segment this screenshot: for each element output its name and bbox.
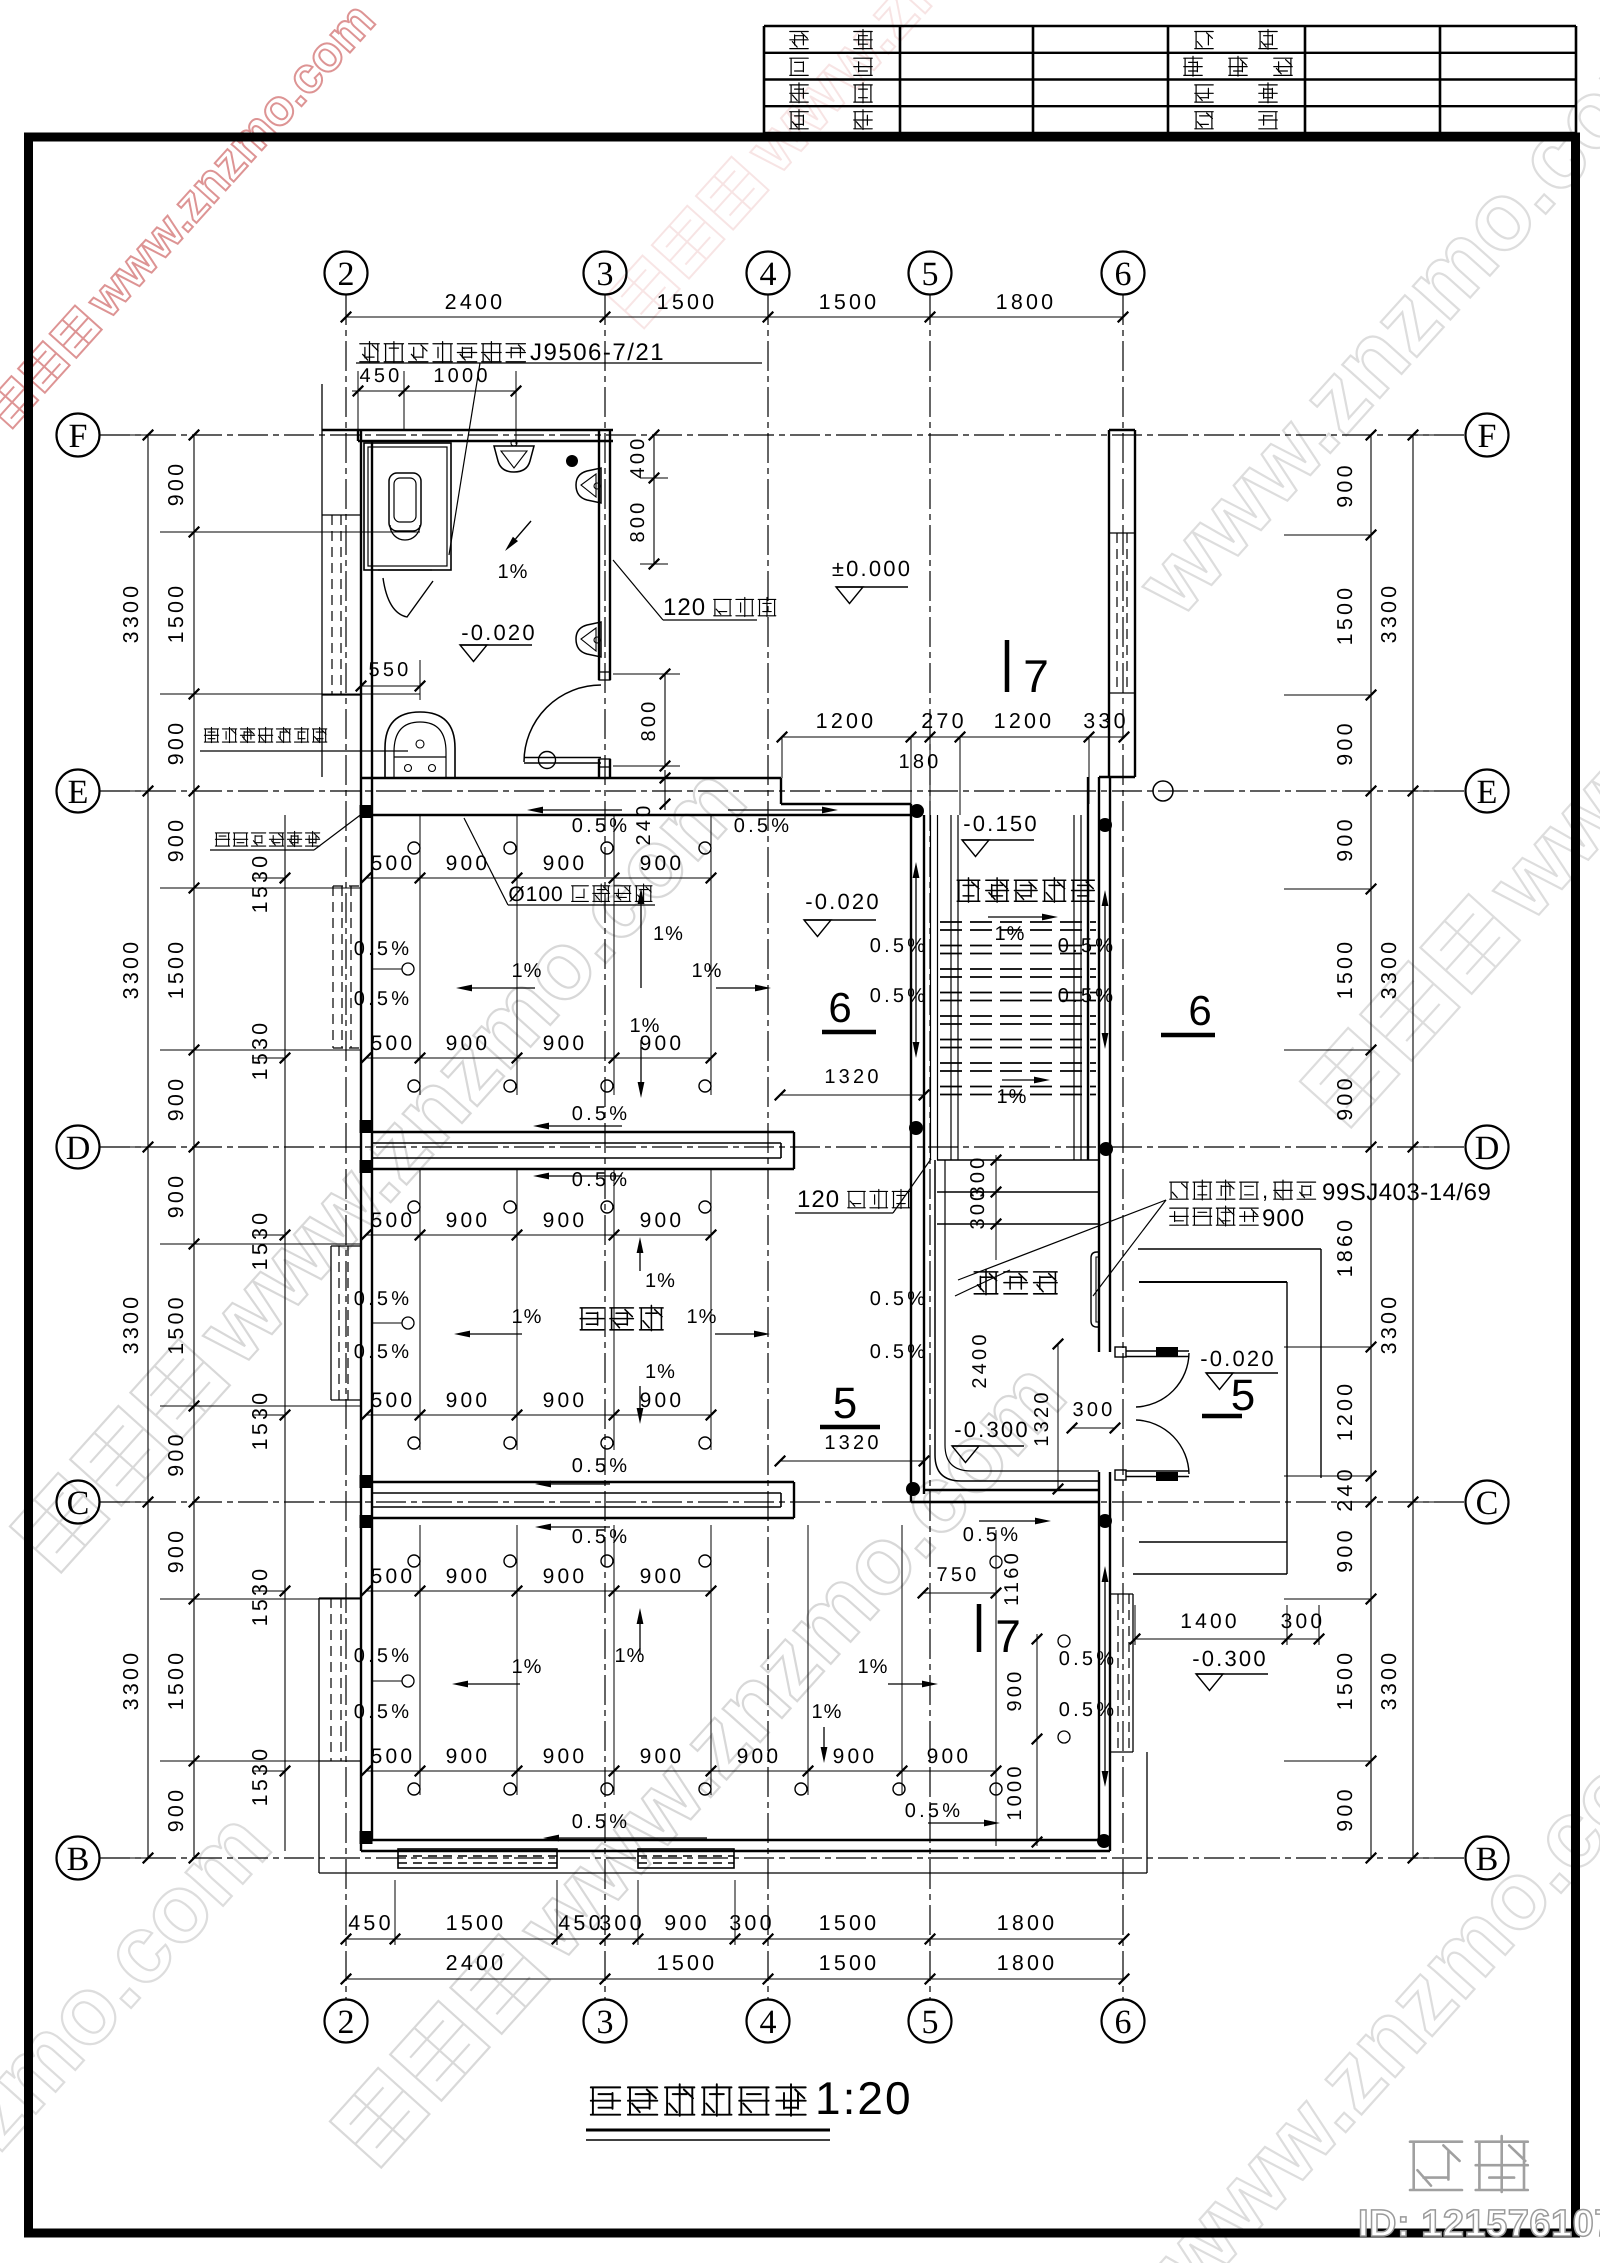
annotation floor drain	[215, 831, 319, 846]
svg-text:1500: 1500	[164, 1294, 188, 1355]
svg-text:900: 900	[446, 1032, 491, 1055]
dim 400/800 right of toilet	[653, 435, 655, 565]
svg-text:4: 4	[760, 256, 777, 293]
dim row 1200/270/1200/330	[782, 736, 1124, 738]
watermark band 2 right	[1286, 301, 1600, 1139]
svg-text:B: B	[1476, 1841, 1499, 1878]
svg-text:500: 500	[371, 852, 416, 875]
svg-text:1530: 1530	[248, 1566, 272, 1627]
corridor side gutters	[950, 815, 952, 1160]
svg-text:900: 900	[164, 1173, 188, 1218]
svg-text:1500: 1500	[819, 1911, 880, 1935]
svg-text:-0.020: -0.020	[1200, 1346, 1276, 1371]
wall toilet top	[322, 429, 613, 431]
svg-text:0.5%: 0.5%	[1058, 985, 1116, 1007]
svg-text:900: 900	[164, 720, 188, 765]
svg-text:900: 900	[446, 852, 491, 875]
corridor wall arrow down	[1104, 960, 1106, 1033]
svg-text:6: 6	[1115, 2004, 1132, 2041]
axis bubbles right	[1466, 414, 1509, 457]
svg-text:450: 450	[360, 365, 403, 387]
svg-text:1%: 1%	[995, 923, 1026, 945]
row1 drains top	[408, 842, 420, 854]
svg-text:180: 180	[899, 751, 942, 773]
svg-text:2: 2	[338, 256, 355, 293]
top sub-dimension 450/1000	[352, 390, 516, 392]
dim 240 wall E	[664, 770, 666, 810]
svg-text:270: 270	[921, 709, 966, 733]
watermark band 1	[0, 746, 766, 1584]
floor drain dot toilet	[566, 455, 578, 467]
svg-text:1%: 1%	[512, 960, 543, 982]
svg-text:900: 900	[640, 1745, 685, 1768]
svg-text:900: 900	[640, 1565, 685, 1588]
partition door swing	[383, 578, 433, 617]
svg-text:0.5%: 0.5%	[354, 1701, 412, 1723]
svg-text:120: 120	[663, 594, 706, 621]
svg-text:0.5%: 0.5%	[572, 1526, 630, 1548]
porch dim 240 bar	[1287, 1475, 1371, 1477]
svg-text:1500: 1500	[657, 1951, 718, 1975]
svg-text:-0.300: -0.300	[954, 1417, 1030, 1442]
bottom dim chain row2	[346, 1978, 1124, 1980]
svg-text:400: 400	[627, 436, 649, 479]
toilet door knob circle	[539, 752, 556, 769]
window bump left D-C	[330, 1246, 332, 1400]
svg-text:1%: 1%	[498, 561, 529, 583]
squat platform notch	[378, 569, 432, 571]
svg-text:6: 6	[828, 984, 851, 1031]
wall right axis6 F-E outer	[1108, 430, 1110, 777]
svg-text:900: 900	[1333, 1527, 1357, 1572]
svg-text:3300: 3300	[1377, 1650, 1401, 1711]
svg-text:1%: 1%	[812, 1701, 843, 1723]
row1 slope 1% mid	[472, 987, 535, 989]
svg-text:1500: 1500	[1333, 1650, 1357, 1711]
svg-text:ID: 1215761071: ID: 1215761071	[1358, 2203, 1600, 2245]
svg-text:900: 900	[543, 852, 588, 875]
svg-text:5: 5	[922, 256, 939, 293]
svg-text:1530: 1530	[248, 1020, 272, 1081]
svg-text:1320: 1320	[824, 1432, 881, 1454]
window bump left E-D dashed	[332, 886, 334, 1048]
svg-text:7: 7	[1023, 650, 1049, 702]
porch inner step	[1139, 1281, 1287, 1283]
top dimension line 2400/1500/1500/1800	[346, 316, 1123, 318]
svg-text:E: E	[68, 774, 89, 811]
svg-text:1000: 1000	[1004, 1763, 1026, 1820]
left dim chain 3300	[147, 435, 149, 1858]
row3 right wall arrow	[1104, 1582, 1106, 1700]
svg-text:900: 900	[1333, 720, 1357, 765]
wall corner markers left	[360, 805, 373, 818]
watermark band 1b upper right	[1116, 0, 1600, 635]
svg-text:1500: 1500	[657, 290, 718, 314]
corridor grating hatch	[940, 921, 1096, 923]
pool bottom wall at C	[924, 1489, 1099, 1491]
svg-text:1500: 1500	[164, 939, 188, 1000]
svg-text:1500: 1500	[1333, 585, 1357, 646]
double door leaf top	[1126, 1350, 1189, 1352]
svg-text:900: 900	[1333, 1075, 1357, 1120]
svg-text:3300: 3300	[1377, 1294, 1401, 1355]
svg-text:550: 550	[369, 659, 412, 681]
axis grid horizontal lines F-B	[100, 434, 1465, 436]
window axis6 wall dashes	[1116, 533, 1118, 693]
svg-text:3300: 3300	[1377, 583, 1401, 644]
svg-text:C: C	[1476, 1485, 1499, 1522]
axis bubbles top	[325, 252, 368, 295]
svg-text:J9506-7/21: J9506-7/21	[530, 339, 665, 366]
toilet door leaf	[524, 757, 601, 759]
svg-text:1%: 1%	[687, 1306, 718, 1328]
bottom windows in B wall	[398, 1849, 557, 1868]
row3 dim bottom full	[366, 1770, 996, 1772]
svg-text:1000: 1000	[433, 365, 490, 387]
wall jog at E right	[1099, 776, 1135, 778]
svg-text:0.5%: 0.5%	[354, 988, 412, 1010]
right dim chain inner	[1370, 435, 1372, 1858]
window bump left C-B	[318, 1598, 320, 1761]
svg-text:0.5%: 0.5%	[572, 1455, 630, 1477]
bottom dim chain row1	[346, 1938, 1124, 1940]
svg-text:900: 900	[164, 1431, 188, 1476]
svg-text:900: 900	[737, 1745, 782, 1768]
svg-text:240: 240	[1333, 1466, 1357, 1511]
svg-text:900: 900	[640, 852, 685, 875]
svg-text:0.5%: 0.5%	[572, 1811, 630, 1833]
svg-text:1%: 1%	[615, 1645, 646, 1667]
svg-text:5: 5	[1231, 1371, 1255, 1420]
corridor left lining	[930, 815, 932, 1160]
row2 drains top	[408, 1201, 420, 1213]
svg-text:1800: 1800	[997, 1951, 1058, 1975]
svg-text:0.5%: 0.5%	[1059, 1699, 1117, 1721]
svg-text:1%: 1%	[512, 1656, 543, 1678]
slope arrow toilet 1%	[516, 521, 532, 539]
dim 1400/300 bottom right	[1135, 1638, 1319, 1640]
room label male shower	[580, 1305, 663, 1330]
svg-text:900: 900	[927, 1745, 972, 1768]
urinal right lower	[576, 622, 601, 657]
porch steps right	[1138, 1248, 1321, 1250]
svg-text:F: F	[1478, 418, 1497, 455]
annotation toilet wood partition leader	[360, 342, 526, 363]
svg-text:-0.020: -0.020	[461, 620, 537, 645]
section mark 7 top	[1005, 640, 1010, 692]
svg-text:0.5%: 0.5%	[905, 1800, 963, 1822]
axis bubbles bottom	[325, 2000, 368, 2043]
svg-text:1%: 1%	[858, 1656, 889, 1678]
svg-text:240: 240	[633, 803, 655, 846]
E axis node circle	[1153, 781, 1173, 801]
svg-text:800: 800	[627, 500, 649, 543]
svg-text:500: 500	[371, 1565, 416, 1588]
svg-text:900: 900	[446, 1389, 491, 1412]
watermark band 4 bottom right	[951, 1676, 1600, 2263]
double door arc bottom	[1136, 1420, 1189, 1474]
svg-text:0.5%: 0.5%	[572, 1169, 630, 1191]
squat toilet platform	[364, 443, 451, 570]
dim 1320 upper	[780, 1094, 924, 1096]
svg-text:900: 900	[1333, 816, 1357, 861]
svg-text:D: D	[66, 1130, 91, 1167]
svg-text:300: 300	[1073, 1399, 1116, 1421]
svg-text:750: 750	[937, 1564, 980, 1586]
svg-text:900: 900	[446, 1565, 491, 1588]
svg-text:1500: 1500	[164, 583, 188, 644]
svg-text:F: F	[69, 418, 88, 455]
wall toilet bottom / E band	[361, 777, 781, 779]
svg-text:1500: 1500	[446, 1911, 507, 1935]
svg-text:7: 7	[995, 1610, 1021, 1662]
washbasin	[385, 712, 455, 778]
svg-text:0.5%: 0.5%	[870, 985, 928, 1007]
svg-text:1%: 1%	[630, 1015, 661, 1037]
svg-text:1:20: 1:20	[815, 2072, 913, 2124]
znzmo logo	[1410, 2136, 1528, 2192]
svg-text:1320: 1320	[824, 1066, 881, 1088]
svg-text:3300: 3300	[119, 939, 143, 1000]
dim 550 toilet	[361, 685, 420, 687]
svg-text:450: 450	[558, 1911, 603, 1935]
svg-text:1800: 1800	[996, 290, 1057, 314]
handrail in pool	[1091, 1252, 1099, 1327]
svg-text:3: 3	[597, 256, 614, 293]
svg-text:1500: 1500	[164, 1650, 188, 1711]
svg-text:1320: 1320	[1031, 1389, 1053, 1446]
annotation washbasin	[204, 727, 326, 742]
svg-text:900: 900	[543, 1389, 588, 1412]
svg-text:1530: 1530	[248, 853, 272, 914]
svg-text:900: 900	[543, 1032, 588, 1055]
row3 drains bottom	[408, 1783, 420, 1795]
corridor label	[957, 878, 1094, 902]
svg-text:1530: 1530	[248, 1210, 272, 1271]
svg-text:0.5%: 0.5%	[870, 935, 928, 957]
svg-text:0.5%: 0.5%	[1059, 1648, 1117, 1670]
wall left outer face	[360, 430, 362, 1851]
svg-text:120: 120	[797, 1186, 840, 1213]
toilet door swing arc	[524, 685, 601, 762]
wall bottom B	[361, 1839, 1110, 1841]
row2 dim top	[366, 1234, 711, 1236]
svg-text:0.5%: 0.5%	[734, 815, 792, 837]
row2 slope 1%	[470, 1333, 522, 1335]
svg-text:900: 900	[664, 1911, 709, 1935]
row1 extension verticals	[419, 815, 421, 1095]
svg-text:3: 3	[597, 2004, 614, 2041]
svg-text:500: 500	[371, 1745, 416, 1768]
svg-text:1860: 1860	[1333, 1217, 1357, 1278]
svg-text:1%: 1%	[692, 960, 723, 982]
svg-text:1%: 1%	[645, 1270, 676, 1292]
watermark band 5 bottom left	[0, 1791, 291, 2263]
svg-text:3300: 3300	[1377, 939, 1401, 1000]
svg-text:D: D	[1475, 1130, 1500, 1167]
svg-text:800: 800	[638, 699, 660, 742]
svg-text:1200: 1200	[994, 709, 1055, 733]
svg-text:900: 900	[543, 1209, 588, 1232]
svg-text:1500: 1500	[1333, 939, 1357, 1000]
partition hairpin at C	[372, 1481, 794, 1483]
svg-text:1200: 1200	[1333, 1381, 1357, 1442]
row1 dim top 500/900x3	[366, 877, 711, 879]
foot pool label	[974, 1269, 1057, 1294]
wall left inner face	[371, 441, 373, 1840]
row2 drains bottom	[408, 1437, 420, 1449]
right dim extension bars	[1413, 434, 1440, 436]
svg-text:900: 900	[1004, 1669, 1026, 1712]
row3 dim 900 1000 right	[1036, 1634, 1038, 1846]
svg-text:0.5%: 0.5%	[354, 1645, 412, 1667]
svg-text:0.5%: 0.5%	[870, 1341, 928, 1363]
svg-text:0.5%: 0.5%	[870, 1288, 928, 1310]
double door arc top	[1136, 1353, 1189, 1407]
double door leaf bottom	[1126, 1470, 1189, 1472]
svg-text:3300: 3300	[119, 583, 143, 644]
svg-text:1%: 1%	[997, 1086, 1028, 1108]
left dim chain 1530s	[284, 815, 286, 1851]
svg-text:500: 500	[371, 1389, 416, 1412]
svg-text:99SJ403-14/69: 99SJ403-14/69	[1322, 1179, 1491, 1206]
svg-text:500: 500	[371, 1032, 416, 1055]
svg-text:0.5%: 0.5%	[1058, 935, 1116, 957]
svg-text:1%: 1%	[653, 923, 684, 945]
svg-text:Ø100: Ø100	[508, 883, 563, 906]
dim 1320 pool	[1057, 1344, 1059, 1489]
svg-text:500: 500	[371, 1209, 416, 1232]
wall corridor left	[910, 804, 912, 1502]
svg-text:900: 900	[164, 1787, 188, 1832]
svg-text:300: 300	[967, 1187, 989, 1230]
svg-text:3300: 3300	[119, 1650, 143, 1711]
svg-text:B: B	[67, 1841, 90, 1878]
svg-text:0.5%: 0.5%	[572, 815, 630, 837]
axis bubbles left	[57, 414, 100, 457]
svg-text:6: 6	[1115, 256, 1132, 293]
row1 drains bottom	[408, 1080, 420, 1092]
svg-text:0.5%: 0.5%	[963, 1524, 1021, 1546]
svg-text:900: 900	[1262, 1205, 1305, 1232]
title block labels column 1	[790, 32, 808, 49]
row3 drains top	[408, 1555, 420, 1567]
svg-text:-0.150: -0.150	[963, 811, 1039, 836]
svg-text:±0.000: ±0.000	[832, 556, 912, 581]
urinal right upper	[576, 468, 601, 503]
svg-text:5: 5	[833, 1379, 857, 1428]
corridor slope 1% bottom	[1002, 1079, 1034, 1081]
svg-text:E: E	[1477, 774, 1498, 811]
wall corridor right / building right E-C	[1098, 777, 1100, 1352]
toilet door frame stubs	[599, 672, 610, 680]
window bump left F-E	[321, 384, 323, 777]
door frame stubs right wall	[1115, 1347, 1126, 1357]
svg-text:0.5%: 0.5%	[354, 1288, 412, 1310]
row1 arrows top	[543, 809, 622, 811]
svg-text:1530: 1530	[248, 1746, 272, 1807]
svg-text:900: 900	[543, 1565, 588, 1588]
svg-text:1500: 1500	[819, 1951, 880, 1975]
svg-text:900: 900	[1333, 462, 1357, 507]
foot pool lining	[935, 1160, 1099, 1481]
svg-text:900: 900	[833, 1745, 878, 1768]
porch lowest step	[1133, 1573, 1287, 1575]
svg-text:330: 330	[1083, 709, 1128, 733]
svg-text:1500: 1500	[819, 290, 880, 314]
title block table	[764, 25, 1576, 27]
svg-text:0.5%: 0.5%	[572, 1103, 630, 1125]
urinal top	[494, 446, 534, 472]
svg-text:2400: 2400	[969, 1331, 991, 1388]
svg-text:900: 900	[446, 1745, 491, 1768]
partition hairpin at D	[372, 1131, 794, 1133]
svg-text:900: 900	[640, 1389, 685, 1412]
svg-text:4: 4	[760, 2004, 777, 2041]
corridor right wall inner line	[1087, 777, 1089, 1160]
row3 extension verticals	[419, 1525, 421, 1795]
section mark 7 bottom	[977, 1604, 982, 1652]
wall toilet right	[598, 430, 600, 680]
watermark band 3	[316, 1341, 1086, 2179]
svg-text:1530: 1530	[248, 1390, 272, 1451]
svg-text:-0.020: -0.020	[805, 889, 881, 914]
watermark red top middle	[596, 0, 1165, 337]
svg-text:C: C	[67, 1485, 90, 1522]
svg-text:2400: 2400	[446, 1951, 507, 1975]
row3 slope 1%	[468, 1683, 520, 1685]
left dim chain 900/1500/900	[193, 435, 195, 1858]
bottom dim extension lines	[394, 1880, 396, 1945]
svg-text:900: 900	[164, 461, 188, 506]
svg-text:900: 900	[1333, 1786, 1357, 1831]
svg-text:5: 5	[922, 2004, 939, 2041]
svg-text:1200: 1200	[816, 709, 877, 733]
squat pan	[389, 473, 421, 531]
dim 300 300 steps	[995, 1155, 997, 1260]
svg-text:1%: 1%	[512, 1306, 543, 1328]
svg-text:6: 6	[1188, 987, 1211, 1034]
corridor left wall arrows	[915, 878, 917, 955]
right dim chain 3300	[1412, 435, 1414, 1858]
svg-text:300: 300	[729, 1911, 774, 1935]
title block labels column 2	[1195, 32, 1213, 49]
svg-text:3300: 3300	[119, 1294, 143, 1355]
row3 dim 750 right	[923, 1592, 996, 1594]
left dim extension bars	[120, 434, 148, 436]
svg-text:0.5%: 0.5%	[354, 938, 412, 960]
svg-text:1400: 1400	[1180, 1610, 1240, 1633]
dim 1320 lower	[780, 1460, 924, 1462]
svg-text:,: ,	[1262, 1178, 1269, 1203]
pool steps	[937, 1159, 1099, 1161]
svg-text:900: 900	[164, 1528, 188, 1573]
corridor slope 1% top	[988, 916, 1042, 918]
watermark red top left	[0, 0, 385, 435]
svg-text:1%: 1%	[645, 1361, 676, 1383]
dim 800 door toilet	[664, 674, 666, 766]
row1 dim bottom 500/900x3	[366, 1057, 711, 1059]
svg-text:1800: 1800	[997, 1911, 1058, 1935]
drawing title	[591, 2084, 806, 2116]
dim 300 pool door	[1072, 1427, 1115, 1429]
svg-text:2400: 2400	[445, 290, 506, 314]
svg-text:2: 2	[338, 2004, 355, 2041]
svg-text:450: 450	[348, 1911, 393, 1935]
svg-text:900: 900	[640, 1209, 685, 1232]
svg-text:1160: 1160	[1001, 1550, 1023, 1606]
annotation handrail	[1170, 1180, 1258, 1200]
